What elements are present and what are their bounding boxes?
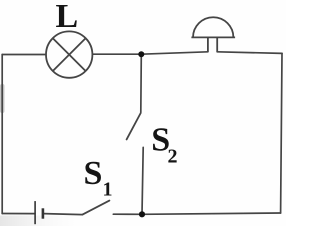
- scan smudge left edge: [0, 84, 5, 113]
- switch S1 blade: [83, 201, 110, 215]
- wire: bottom junction to bottom-right corner: [142, 213, 281, 214]
- battery short plate (-): [42, 208, 45, 218]
- wire: right side vertical: [281, 53, 282, 213]
- scan smudge bottom-left: [0, 216, 78, 227]
- wire: bottom-left corner to battery: [2, 213, 35, 215]
- switch S2 blade: [127, 113, 141, 139]
- wire: top junction to bell left stem: [141, 52, 208, 54]
- svg-text:S: S: [84, 155, 103, 192]
- node: top junction dot: [138, 51, 144, 57]
- svg-text:1: 1: [103, 179, 113, 201]
- battery long plate (+): [34, 201, 36, 224]
- svg-text:L: L: [56, 0, 79, 35]
- node: bottom junction dot: [139, 211, 145, 217]
- wire: top-left from corner to lamp: [2, 54, 45, 56]
- lamp L (circle with X): [46, 31, 92, 77]
- svg-text:2: 2: [168, 145, 178, 167]
- wire: S2 lower terminal down to bottom junction: [142, 147, 143, 214]
- bell (dome with stem): [191, 17, 235, 52]
- wire: lamp to top junction: [93, 53, 141, 55]
- wire: bell right stem to top-right corner: [217, 52, 282, 54]
- wire: battery to switch S1 pivot: [44, 214, 83, 215]
- wire: left side vertical: [1, 55, 3, 214]
- wire: S1 contact to bottom junction: [113, 213, 142, 215]
- wire: top junction down to S2 upper terminal: [140, 54, 143, 112]
